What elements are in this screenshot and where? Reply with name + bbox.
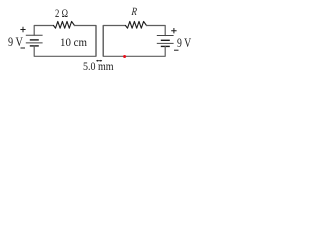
resistor R zigzag	[126, 21, 147, 28]
right battery B2 long plate lower	[157, 42, 174, 44]
resistor R1 2 ohm zigzag	[54, 21, 75, 28]
label R resistor	[131, 6, 137, 18]
label 9 V right battery	[177, 36, 191, 51]
wire from resistor R to right battery	[147, 26, 166, 36]
minus sign left battery	[21, 47, 26, 49]
left battery B1 short plate	[30, 39, 39, 41]
gap dimension arrow 5.0 mm	[96, 60, 102, 62]
wire from right plate to resistor R	[103, 25, 125, 27]
left battery B1 short plate bottom	[30, 45, 39, 47]
capacitor left plate	[95, 26, 97, 57]
wire top-left from battery to 2-ohm resistor	[34, 26, 53, 36]
label 10 cm plate size	[60, 37, 87, 49]
right battery B2 short plate	[161, 39, 170, 41]
plus sign left battery	[20, 27, 25, 32]
capacitor right plate	[102, 26, 104, 57]
label 5.0 mm gap	[83, 61, 114, 73]
left battery B1 long plate lower	[26, 42, 43, 44]
right battery B2 long plate top	[157, 35, 174, 37]
wire from right battery bottom to bottom rail	[103, 46, 165, 56]
label 2 ohm resistor value	[55, 8, 68, 20]
wire from left battery bottom to bottom rail	[34, 46, 96, 56]
wire from 2-ohm resistor to left capacitor plate	[75, 25, 97, 27]
node dot red on bottom wire	[123, 55, 126, 58]
minus sign right battery	[174, 49, 179, 51]
label 9 V left battery	[8, 35, 23, 50]
left battery B1 long plate top	[26, 34, 43, 36]
plus sign right battery	[171, 28, 176, 33]
right battery B2 short plate bottom	[161, 45, 170, 47]
